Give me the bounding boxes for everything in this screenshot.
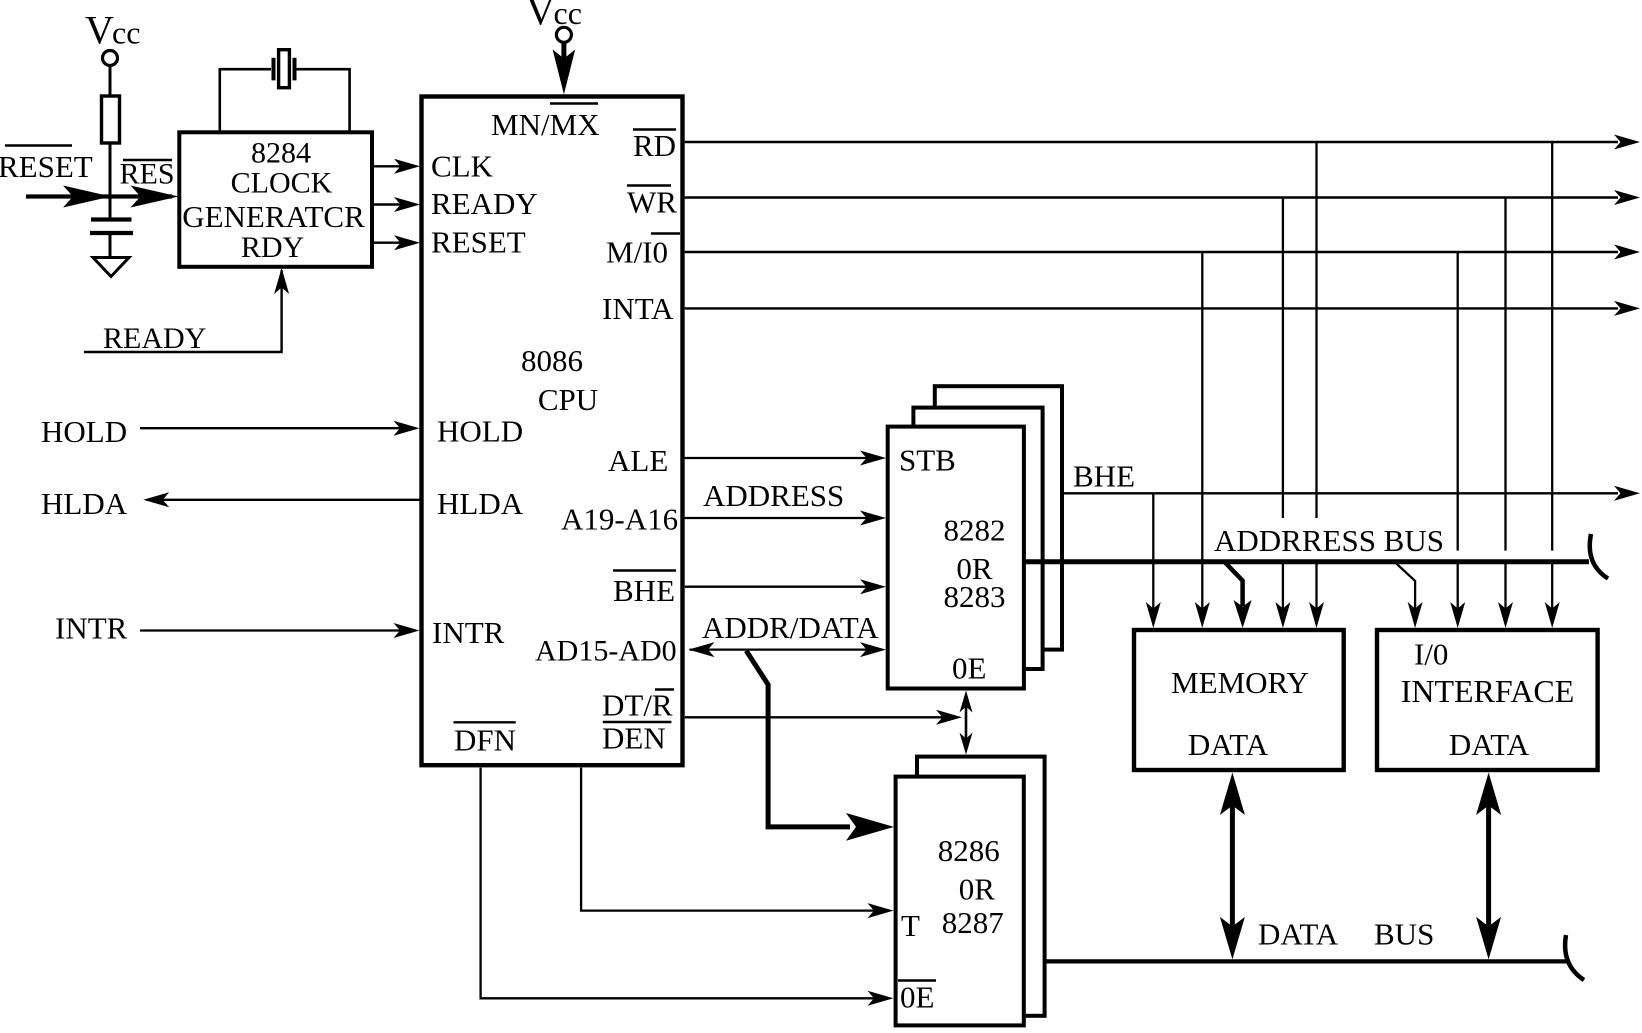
- wire address bus stub to memory (thick): [1225, 563, 1252, 629]
- wire CPU bottom to 8286 OE: [481, 768, 876, 999]
- pin RD label: [633, 128, 676, 163]
- Vcc terminal circle (top): [556, 27, 571, 42]
- svg-text:0E: 0E: [952, 651, 986, 686]
- wire WR drop to io: [1498, 198, 1513, 629]
- svg-text:DEN: DEN: [602, 721, 666, 756]
- label ADDRESS: [703, 478, 844, 513]
- pin DEN label: [602, 721, 671, 756]
- svg-text:0E: 0E: [900, 980, 934, 1015]
- SECTION: left power-on reset circuit: [0, 8, 289, 356]
- SECTION: 8286 transceiver stack: [896, 757, 1584, 1026]
- SECTION: 8282 latch stack: [888, 386, 1640, 754]
- arrowhead ALE into STB: [860, 451, 886, 466]
- SECTION: memory and io: [1134, 142, 1598, 959]
- pin BHE label: [613, 571, 676, 609]
- pin HLDA label: [437, 486, 524, 521]
- svg-text:STB: STB: [899, 443, 956, 478]
- wire BHE output from latch: [1062, 492, 1618, 494]
- svg-text:INTERFACE: INTERFACE: [1401, 673, 1575, 709]
- svg-text:DATA: DATA: [1449, 727, 1530, 762]
- svg-text:8086: 8086: [521, 343, 583, 378]
- svg-text:ADDR/DATA: ADDR/DATA: [702, 610, 879, 645]
- svg-text:8282: 8282: [944, 513, 1006, 548]
- wire Vcc into CPU: [561, 43, 566, 71]
- wire BHE drop to memory: [1146, 493, 1161, 628]
- svg-text:DATA: DATA: [1258, 917, 1339, 952]
- svg-text:ADDRRESS BUS: ADDRRESS BUS: [1214, 523, 1444, 558]
- svg-text:ALE: ALE: [608, 443, 668, 478]
- latch 8282 U3: [888, 427, 1024, 689]
- svg-text:CLOCK: CLOCK: [231, 167, 333, 200]
- wire HLDA out of CPU: [160, 499, 420, 501]
- svg-text:DATA: DATA: [1188, 727, 1269, 762]
- memory block: [1134, 630, 1344, 770]
- svg-text:WR: WR: [627, 185, 677, 220]
- svg-text:RD: RD: [633, 128, 676, 163]
- wire DT/R DEN to transceiver: [685, 716, 944, 718]
- svg-text:0R: 0R: [959, 872, 996, 907]
- svg-text:8287: 8287: [942, 905, 1004, 940]
- arrowhead RD right: [1614, 135, 1640, 150]
- svg-text:HOLD: HOLD: [41, 414, 127, 449]
- svg-text:BHE: BHE: [1073, 459, 1135, 494]
- arrowhead CLK: [394, 159, 420, 174]
- address bus break mark: [1590, 534, 1608, 579]
- SECTION: 8284 clock generator: [179, 50, 420, 267]
- wire ALE to latch STB: [685, 457, 868, 459]
- arrowhead HLDA: [143, 492, 169, 507]
- power Vcc (left) label: [85, 8, 140, 53]
- capacitor C1: [90, 220, 133, 234]
- svg-text:cc: cc: [554, 0, 582, 31]
- wire RD drop to io: [1545, 142, 1560, 628]
- io data double arrow: [1476, 773, 1501, 960]
- pin DFN label: [454, 722, 517, 757]
- svg-text:T: T: [901, 908, 920, 943]
- svg-text:INTR: INTR: [432, 615, 505, 650]
- svg-text:READY: READY: [103, 322, 206, 355]
- label READY (external): [103, 322, 206, 355]
- svg-text:8284: 8284: [251, 137, 311, 170]
- arrowhead RESET into node: [63, 186, 111, 208]
- arrowhead AD branch into 8286: [846, 813, 894, 841]
- arrowhead BHE into latch: [860, 579, 886, 594]
- wire crystal right leg: [297, 69, 350, 132]
- svg-text:V: V: [526, 0, 555, 34]
- svg-text:INTR: INTR: [55, 611, 128, 646]
- svg-text:CLK: CLK: [431, 149, 494, 184]
- svg-text:MN/MX: MN/MX: [491, 107, 600, 142]
- label RES (active-low): [120, 158, 175, 191]
- SECTION: 8086 CPU block: [41, 0, 683, 765]
- svg-text:RDY: RDY: [241, 231, 304, 264]
- wire INTA bus line: [685, 307, 1618, 309]
- pin READY label: [431, 186, 538, 221]
- svg-text:8283: 8283: [944, 579, 1006, 614]
- svg-text:BUS: BUS: [1374, 917, 1434, 952]
- label INTR (external): [55, 611, 128, 646]
- wire A19-A16 to latch: [685, 517, 868, 519]
- svg-text:GENERATCR: GENERATCR: [182, 199, 365, 234]
- wire BHE to latch: [685, 586, 868, 588]
- pin DT/R label: [602, 688, 674, 723]
- Vcc terminal circle (left): [103, 51, 118, 66]
- pin INTR label: [432, 615, 505, 650]
- arrowhead into T: [868, 903, 894, 918]
- pin MN/MX label: [491, 104, 600, 143]
- pin M/I0 label: [606, 234, 680, 270]
- arrowhead A19-A16 into latch: [860, 511, 886, 526]
- svg-text:RESET: RESET: [0, 149, 93, 184]
- data bus (thick): [1045, 959, 1570, 963]
- wire READY to 8284 RDY: [84, 270, 282, 352]
- label ADDRRESS BUS: [1209, 523, 1451, 558]
- arrowhead AD into CPU: [689, 642, 715, 657]
- 8284 clock generator U1: [179, 132, 372, 266]
- SECTION: top-right control lines: [481, 135, 1640, 1006]
- label ADDR/DATA: [702, 610, 879, 645]
- pin ALE label: [608, 443, 668, 478]
- pin CLK label: [431, 149, 494, 184]
- pin WR label: [627, 185, 677, 220]
- pin A19-A16 label: [561, 502, 678, 537]
- pin HOLD label: [437, 414, 523, 449]
- wire Vcc to resistor: [109, 66, 112, 97]
- crystal Y1: [274, 50, 295, 88]
- arrowhead BHE right: [1614, 486, 1640, 501]
- latch 8282 back layer: [935, 386, 1062, 649]
- svg-text:DFN: DFN: [454, 723, 516, 758]
- io interface block: [1377, 630, 1598, 770]
- svg-text:M/I0: M/I0: [606, 235, 668, 270]
- wire M/I0 drop to io: [1450, 252, 1465, 628]
- wire crystal left leg: [220, 69, 271, 132]
- wire RD bus line: [685, 141, 1618, 143]
- arrowhead RES into 8284: [131, 186, 179, 208]
- arrowhead RESET: [394, 235, 420, 250]
- resistor R1: [102, 96, 120, 143]
- arrowhead READY up into 8284: [274, 268, 289, 294]
- wire RD drop to memory: [1309, 142, 1324, 628]
- wire WR bus line: [685, 196, 1618, 198]
- wire WR drop to memory: [1275, 198, 1290, 629]
- svg-text:DT/R: DT/R: [602, 688, 673, 723]
- arrowhead READY: [394, 197, 420, 212]
- arrowhead INTA right: [1614, 301, 1640, 316]
- wire AD branch to 8286 (thick): [746, 651, 850, 827]
- svg-text:V: V: [85, 8, 114, 53]
- pin AD15-AD0 label: [535, 635, 677, 668]
- svg-text:HLDA: HLDA: [437, 486, 524, 521]
- svg-text:RES: RES: [120, 158, 175, 191]
- svg-text:A19-A16: A19-A16: [561, 502, 678, 537]
- power Vcc (top) label: [526, 0, 582, 34]
- svg-text:I/0: I/0: [1414, 637, 1448, 672]
- arrowhead WR right: [1614, 190, 1640, 205]
- wire M/I0 drop to memory: [1195, 252, 1210, 628]
- svg-text:HLDA: HLDA: [41, 486, 128, 521]
- arrowhead into OE: [868, 991, 894, 1006]
- svg-text:BHE: BHE: [613, 573, 675, 608]
- wire resistor to capacitor through RES node: [109, 143, 112, 219]
- transceiver 8286 U4: [896, 777, 1024, 1026]
- arrowhead M/I0 right: [1614, 245, 1640, 260]
- memory data double arrow: [1220, 773, 1245, 960]
- latch 8282 middle layer: [913, 408, 1042, 669]
- vertical double arrow latch OE to 8286: [960, 691, 973, 755]
- wire capacitor to ground: [109, 233, 112, 256]
- arrowhead Vcc into MN/MX pin: [553, 50, 576, 95]
- wire 8284 READY to CPU: [372, 203, 402, 205]
- svg-text:MEMORY: MEMORY: [1171, 665, 1309, 700]
- svg-text:8286: 8286: [938, 833, 1000, 868]
- pin INTA label: [602, 291, 674, 326]
- wire CPU bottom to 8286 T: [581, 768, 876, 911]
- transceiver 8286 back layer: [917, 757, 1045, 1016]
- svg-text:HOLD: HOLD: [437, 414, 523, 449]
- wire M/I0 bus line: [685, 251, 1618, 253]
- arrowhead INTR: [394, 623, 420, 638]
- wire address bus stub to io: [1395, 563, 1422, 629]
- wire AD15-AD0 to latch (bidirectional): [690, 648, 869, 650]
- wire RESET input: [26, 194, 172, 198]
- label HOLD (external): [41, 414, 127, 449]
- svg-text:cc: cc: [112, 15, 140, 51]
- label DATA BUS: [1258, 917, 1434, 952]
- svg-text:READY: READY: [431, 186, 538, 221]
- address bus (thick): [1024, 559, 1589, 564]
- 8086 CPU U2: [422, 97, 683, 766]
- wire 8284 CLK to CPU: [372, 165, 402, 167]
- arrowhead DT/R right: [936, 710, 962, 725]
- label HLDA (external): [41, 486, 128, 521]
- svg-text:ADDRESS: ADDRESS: [703, 478, 844, 513]
- ground: [93, 258, 129, 277]
- svg-text:AD15-AD0: AD15-AD0: [535, 635, 677, 668]
- svg-text:CPU: CPU: [538, 382, 598, 417]
- label RESET (active-low): [0, 146, 93, 185]
- wire HOLD into CPU: [140, 427, 402, 429]
- arrowhead AD into latch: [860, 642, 886, 657]
- arrowhead HOLD: [394, 421, 420, 436]
- pin RESET label: [431, 225, 526, 260]
- label BHE (bus): [1073, 459, 1135, 494]
- svg-text:INTA: INTA: [602, 291, 674, 326]
- svg-text:RESET: RESET: [431, 225, 526, 260]
- wire 8284 RESET to CPU: [372, 241, 402, 243]
- data bus break mark: [1565, 935, 1584, 980]
- wire INTR into CPU: [140, 629, 402, 631]
